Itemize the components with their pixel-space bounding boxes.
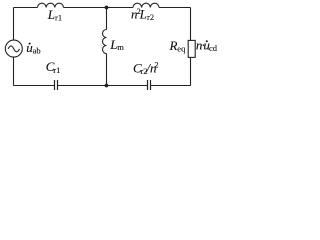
- svg-text:ab: ab: [33, 45, 41, 55]
- svg-text:cd: cd: [209, 43, 218, 53]
- node junction top: [105, 6, 109, 10]
- wire L_m lower: [106, 54, 108, 86]
- wire right rail upper: [190, 8, 192, 41]
- svg-text:eq: eq: [177, 44, 186, 54]
- wire L_m upper: [106, 8, 108, 30]
- resistor R_eq: [188, 40, 195, 57]
- wire bottom middle: [58, 85, 148, 87]
- svg-text:R: R: [169, 38, 178, 53]
- label R_eq: [169, 38, 187, 54]
- label C_r1: [46, 59, 61, 75]
- svg-text:L: L: [139, 7, 147, 22]
- label û_ab: [26, 40, 40, 56]
- inductor n²L_r2: [133, 3, 159, 7]
- wire left rail lower: [13, 57, 15, 86]
- ac source V1: [5, 40, 22, 57]
- label n²L_r2: [131, 6, 154, 22]
- wire top-left segment: [14, 7, 38, 9]
- label C_r2/n²: [133, 59, 159, 76]
- wire top-right segment: [159, 7, 191, 9]
- wire left rail upper: [13, 8, 15, 41]
- svg-text:2: 2: [154, 59, 158, 69]
- svg-text:m: m: [117, 42, 124, 52]
- label L_m: [109, 37, 124, 52]
- capacitor C_r1: [55, 80, 58, 90]
- svg-text:r1: r1: [55, 13, 62, 23]
- wire right rail lower: [190, 57, 192, 85]
- wire bottom-right segment: [151, 85, 191, 87]
- svg-text:L: L: [47, 7, 55, 22]
- svg-text:r2: r2: [147, 12, 154, 22]
- label n·û_cd: [196, 37, 218, 53]
- label L_r1: [47, 7, 62, 23]
- wire top middle: [64, 7, 134, 9]
- wire bottom-left segment: [14, 85, 55, 87]
- node junction bottom: [105, 84, 109, 88]
- inductor L_r1: [38, 3, 64, 7]
- inductor L_m: [103, 30, 107, 54]
- capacitor C_r2/n²: [148, 80, 151, 90]
- svg-text:r1: r1: [53, 65, 60, 75]
